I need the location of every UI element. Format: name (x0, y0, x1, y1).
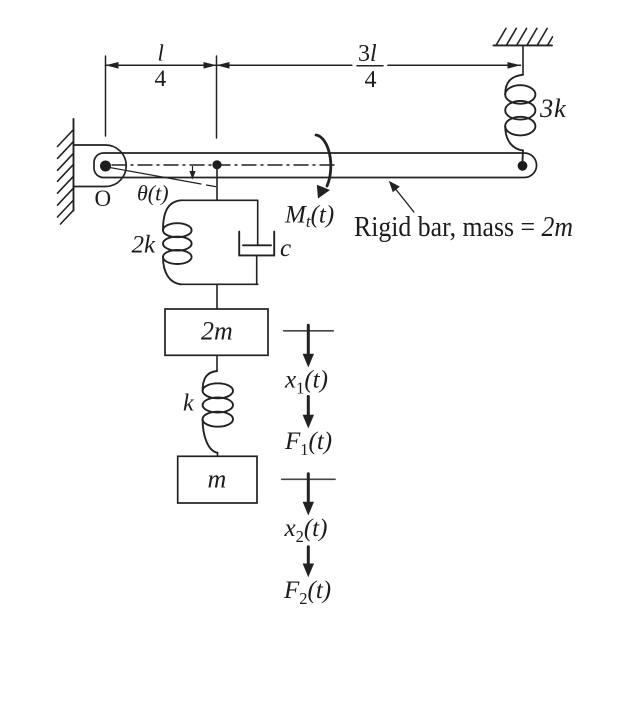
svg-text:Rigid bar, mass = 2m: Rigid bar, mass = 2m (354, 212, 573, 243)
svg-text:c: c (280, 235, 291, 262)
svg-text:l: l (158, 41, 164, 66)
svg-text:3k: 3k (539, 93, 567, 123)
svg-text:3l: 3l (358, 41, 377, 67)
svg-text:θ(t): θ(t) (137, 181, 169, 206)
svg-text:4: 4 (365, 67, 377, 93)
svg-text:4: 4 (155, 66, 167, 92)
svg-text:O: O (95, 186, 112, 211)
svg-text:F2(t): F2(t) (283, 577, 331, 608)
svg-text:m: m (208, 464, 227, 493)
svg-text:x2(t): x2(t) (284, 515, 328, 546)
svg-text:k: k (183, 391, 194, 417)
svg-text:2k: 2k (132, 232, 157, 259)
svg-text:F1(t): F1(t) (284, 428, 332, 459)
svg-text:x1(t): x1(t) (284, 367, 328, 398)
svg-text:2m: 2m (201, 317, 233, 346)
